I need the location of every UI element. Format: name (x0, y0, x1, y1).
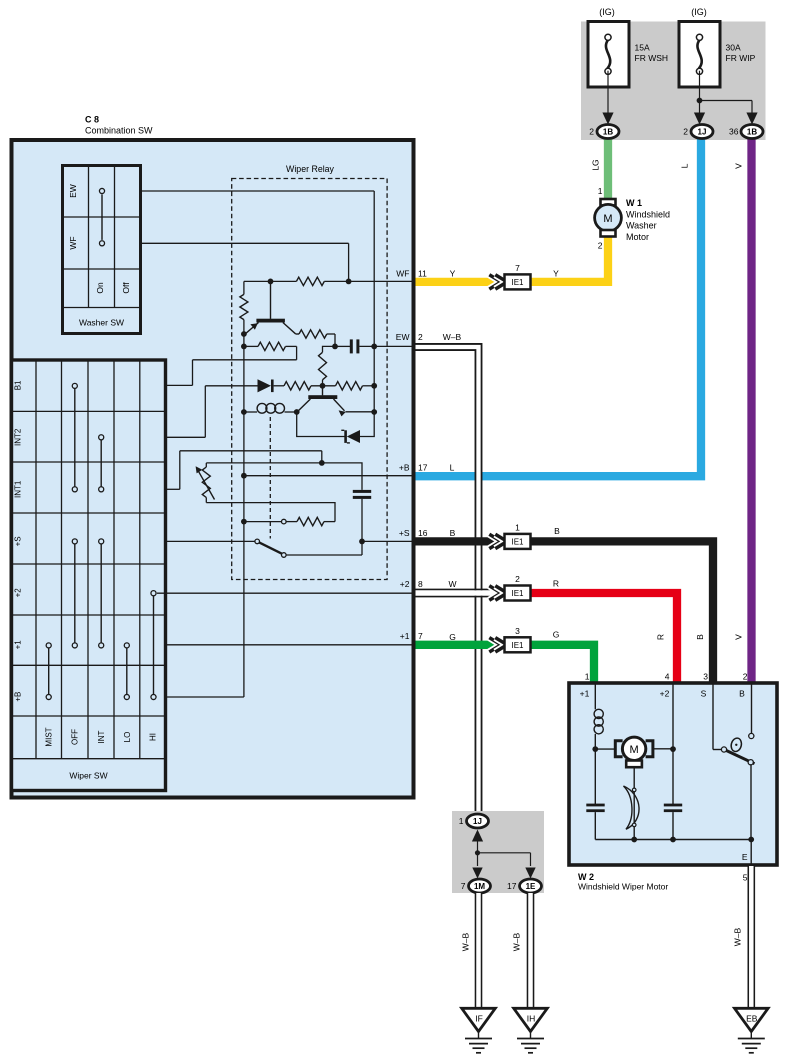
svg-text:Washer: Washer (626, 221, 657, 231)
wiper relay dashed box (232, 179, 387, 580)
svg-text:Y: Y (553, 268, 559, 278)
svg-text:IH: IH (527, 1014, 536, 1024)
fuse F2 30A FR WIP (679, 22, 720, 88)
wire W-B E pin to ground EB (747, 866, 755, 1009)
svg-text:W–B: W–B (512, 932, 522, 951)
svg-text:B: B (554, 526, 560, 536)
svg-text:EW: EW (68, 184, 78, 198)
fuse F1 15A FR WSH (588, 22, 629, 88)
resistor R8 row with contact (244, 521, 282, 523)
wire to 1E branch (478, 852, 531, 854)
svg-text:LG: LG (591, 159, 601, 170)
svg-text:B: B (695, 634, 705, 640)
svg-text:W–B: W–B (443, 332, 462, 342)
svg-text:OFF: OFF (71, 729, 80, 745)
svg-text:IE1: IE1 (511, 589, 524, 598)
EW row: resistor R4 (244, 345, 258, 347)
svg-text:IE1: IE1 (511, 278, 524, 287)
svg-text:L: L (680, 163, 690, 168)
svg-text:1J: 1J (473, 817, 482, 826)
svg-text:HI: HI (149, 733, 158, 741)
resistor R5 (284, 382, 311, 390)
coil L1 row (244, 411, 257, 413)
svg-text:16: 16 (418, 528, 428, 538)
svg-text:EW: EW (396, 332, 410, 342)
svg-text:1: 1 (515, 522, 520, 532)
svg-text:Off: Off (121, 282, 131, 294)
WF row line pin 11 (244, 280, 297, 282)
main rail from +B row (166, 696, 244, 698)
svg-text:2: 2 (589, 127, 594, 137)
svg-text:INT: INT (97, 730, 106, 743)
svg-text:IF: IF (475, 1014, 483, 1024)
wire fuse F2 to connector 1J (699, 71, 701, 117)
svg-text:G: G (449, 632, 456, 642)
W2 cam crescent (633, 767, 635, 839)
transistor Q1 (270, 281, 272, 319)
svg-text:W 1: W 1 (626, 198, 642, 208)
+B row line pin 17 (244, 475, 414, 477)
W2 +2 lead and capacitor C4 (672, 684, 674, 804)
wire LG from 1B to washer motor pin 1 (604, 137, 612, 200)
transistor Q2 (322, 386, 324, 396)
wiper switch contacts HI column (153, 596, 155, 695)
washer switch box (63, 166, 141, 334)
variable resistor VR1 (205, 463, 207, 467)
wiper switch contacts OFF column (74, 388, 76, 487)
join connector IE1 pin 3 (G) (489, 638, 501, 652)
svg-text:Windshield: Windshield (626, 209, 670, 219)
svg-text:W 2: W 2 (578, 872, 594, 882)
junction block gray box (452, 811, 544, 893)
svg-text:B: B (450, 528, 456, 538)
svg-text:(IG): (IG) (691, 7, 707, 17)
washer motor W1 (601, 199, 616, 206)
W2 E lead (750, 765, 752, 840)
resistor R3 row (296, 333, 300, 335)
+2 row line pin 8 (157, 592, 414, 594)
svg-text:1B: 1B (603, 128, 613, 137)
svg-text:8: 8 (418, 579, 423, 589)
svg-text:17: 17 (507, 881, 517, 891)
wire W-B 1M to ground IF (475, 893, 483, 1009)
svg-text:R: R (656, 634, 666, 640)
svg-text:+1: +1 (14, 640, 23, 650)
svg-text:+S: +S (399, 528, 410, 538)
W2 bottom rail (595, 839, 751, 841)
wire row from INT1 to junction (319, 460, 325, 466)
junction node (475, 850, 480, 855)
svg-text:7: 7 (515, 263, 520, 273)
resistor R6 (336, 382, 363, 390)
svg-text:C 8: C 8 (85, 115, 99, 125)
washer switch contacts EW-WF (101, 194, 103, 240)
svg-text:Washer SW: Washer SW (79, 318, 124, 328)
wiper switch contacts INT column (100, 440, 102, 487)
svg-text:1: 1 (585, 672, 590, 682)
wiper switch contacts MIST column (48, 648, 50, 695)
svg-text:W–B: W–B (733, 927, 743, 946)
svg-text:E: E (742, 852, 748, 862)
wiper motor W2 box (569, 683, 777, 865)
capacitor C1 on EW row (335, 345, 350, 347)
resistor R7 vertical (322, 380, 324, 386)
svg-text:+S: +S (14, 536, 23, 546)
wire B1 row to relay (staircase) (166, 384, 193, 386)
junction node above 1J (697, 98, 703, 104)
wire R from IE1 to wiper motor pin 4 (531, 593, 678, 684)
wire INT1 row staircase into relay (166, 488, 180, 490)
svg-text:2: 2 (683, 127, 688, 137)
svg-text:V: V (734, 163, 744, 169)
svg-text:WF: WF (68, 236, 78, 249)
svg-text:7: 7 (461, 881, 466, 891)
svg-text:Wiper SW: Wiper SW (69, 771, 107, 781)
wire W-B 1E to ground IH (527, 893, 535, 1009)
svg-text:Wiper Relay: Wiper Relay (286, 164, 335, 174)
svg-text:30A: 30A (726, 43, 741, 53)
join connector IE1 pin 7 (Y) (489, 275, 501, 289)
wire washer WF contact into relay (141, 242, 349, 244)
svg-text:4: 4 (665, 672, 670, 682)
svg-text:1B: 1B (747, 128, 757, 137)
svg-text:1J: 1J (698, 128, 707, 137)
wire W from +2 pin 8 (416, 590, 505, 596)
svg-text:1M: 1M (474, 882, 485, 891)
svg-text:M: M (603, 213, 612, 225)
svg-text:Y: Y (450, 268, 456, 278)
relay switch SW1 (166, 540, 255, 542)
ground EB (735, 1008, 769, 1031)
row to capacitor C2 (206, 463, 362, 490)
svg-text:INT2: INT2 (14, 428, 23, 446)
svg-text:M: M (630, 744, 639, 756)
wire VR1 bottom row (206, 503, 335, 522)
svg-text:(IG): (IG) (599, 7, 615, 17)
svg-text:2: 2 (598, 241, 603, 251)
join connector IE1 pin 1 (B) (489, 534, 501, 548)
svg-text:Motor: Motor (626, 232, 649, 242)
svg-text:+1: +1 (400, 631, 410, 641)
wiper switch contacts LO column (126, 648, 128, 695)
connector 1E pin 17 (520, 879, 542, 893)
svg-text:3: 3 (515, 626, 520, 636)
svg-text:+1: +1 (580, 689, 590, 699)
wire L from 1J to +B pin 17 (416, 137, 702, 476)
relay actuation dashed link (269, 417, 271, 539)
svg-text:W: W (448, 579, 456, 589)
svg-text:Windshield Wiper Motor: Windshield Wiper Motor (578, 882, 668, 892)
svg-text:36: 36 (729, 127, 739, 137)
svg-text:INT1: INT1 (14, 480, 23, 498)
ground IF (462, 1008, 496, 1031)
svg-text:+2: +2 (660, 689, 670, 699)
svg-text:IE1: IE1 (511, 641, 524, 650)
wire G from +1 pin 7 (416, 641, 533, 649)
svg-text:17: 17 (418, 463, 428, 473)
svg-text:LO: LO (123, 732, 132, 743)
svg-text:S: S (701, 689, 707, 699)
wire fuse F1 to connector 1B (607, 71, 609, 117)
W2 motor M (595, 748, 615, 750)
svg-text:+B: +B (399, 463, 410, 473)
svg-text:+2: +2 (14, 588, 23, 598)
wire B from +S pin 16 to wiper motor pin 3 (416, 541, 714, 684)
svg-text:Combination SW: Combination SW (85, 126, 153, 136)
W2 +1 lead and coil L2 (594, 684, 596, 709)
svg-text:EB: EB (746, 1014, 758, 1024)
wire G from IE1 to wiper motor pin 1 (531, 645, 595, 684)
svg-text:15A: 15A (635, 43, 650, 53)
resistor R2 on WF row (324, 280, 413, 282)
svg-text:R: R (553, 578, 559, 588)
connector 1B pin 36 (741, 125, 763, 139)
svg-text:7: 7 (418, 631, 423, 641)
fuse panel background (581, 22, 766, 141)
connector 1J pin 1 bottom (467, 814, 489, 828)
svg-text:+2: +2 (400, 579, 410, 589)
svg-text:2: 2 (515, 574, 520, 584)
svg-text:2: 2 (418, 332, 423, 342)
svg-text:IE1: IE1 (511, 537, 524, 546)
combination switch C8 box (12, 140, 414, 798)
svg-text:2: 2 (743, 672, 748, 682)
svg-text:G: G (553, 630, 560, 640)
wire INT2 row to diode anode (166, 436, 206, 438)
svg-text:+B: +B (14, 692, 23, 702)
+1 row line pin 7 (166, 644, 414, 646)
svg-text:1: 1 (598, 186, 603, 196)
vertical resistor R1 on rail (243, 281, 245, 294)
wire washer EW contact to relay right rail (141, 190, 375, 192)
W2 park switch (712, 684, 714, 750)
zener diode Z1 (297, 412, 347, 437)
connector 1J pin 2 (691, 125, 713, 139)
svg-text:On: On (95, 282, 105, 294)
diode D1 row (205, 385, 257, 387)
svg-text:11: 11 (418, 268, 427, 278)
W2 B contact (751, 684, 753, 733)
+S row line pin 16 (362, 540, 414, 542)
svg-text:FR WIP: FR WIP (726, 53, 756, 63)
svg-text:L: L (450, 463, 455, 473)
connector 1B pin 2 (597, 125, 619, 139)
capacitor C2 (353, 490, 371, 493)
wire Y washer motor pin 2 to WF pin 11 via IE1 (416, 235, 609, 282)
svg-text:FR WSH: FR WSH (635, 53, 669, 63)
svg-text:V: V (734, 634, 744, 640)
wire V from 1B pin 36 down to wiper motor pin 2 (747, 137, 755, 684)
svg-text:3: 3 (703, 672, 708, 682)
svg-text:W–B: W–B (461, 932, 471, 951)
svg-text:B1: B1 (14, 380, 23, 390)
svg-text:5: 5 (743, 873, 748, 883)
svg-text:1: 1 (459, 816, 464, 826)
wire junction to connector 1B pin 36 (700, 100, 753, 102)
svg-text:B: B (739, 689, 745, 699)
join connector IE1 pin 2 (W/R) (489, 586, 501, 600)
svg-text:WF: WF (396, 268, 409, 278)
wire W-B from EW pin 2 down to 1J (416, 347, 479, 813)
connector 1M pin 7 (469, 879, 491, 893)
svg-text:MIST: MIST (45, 727, 54, 746)
capacitor C3 (586, 804, 604, 807)
svg-text:1E: 1E (526, 882, 536, 891)
ground IH (514, 1008, 548, 1031)
wiper switch box (12, 360, 166, 791)
